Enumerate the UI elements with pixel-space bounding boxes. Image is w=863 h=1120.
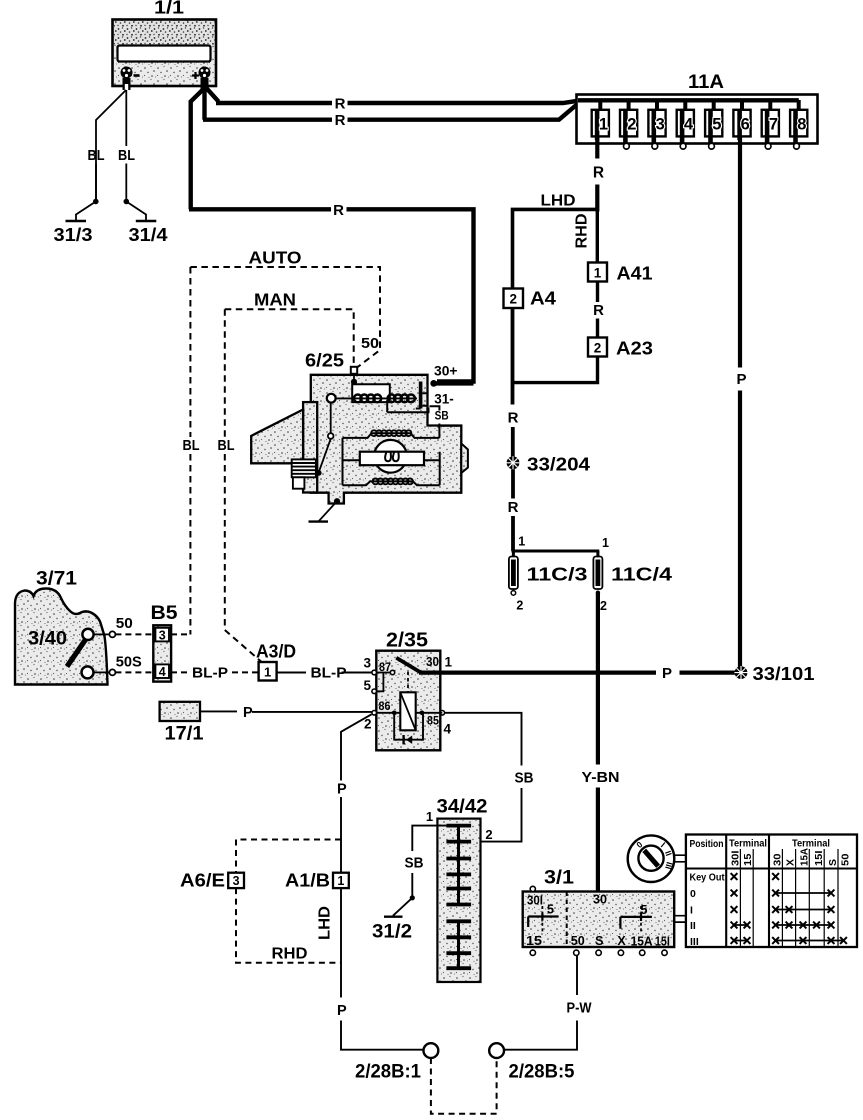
starter motor 6/25 <box>251 375 468 504</box>
starter right end cap <box>461 444 468 474</box>
svg-text:R: R <box>508 499 519 516</box>
svg-text:15: 15 <box>742 853 754 866</box>
relay coil <box>400 692 415 730</box>
relay contact arm <box>396 658 420 673</box>
svg-text:30I: 30I <box>527 894 543 908</box>
svg-text:8: 8 <box>797 116 806 134</box>
svg-text:R: R <box>335 96 346 113</box>
svg-text:BL-P: BL-P <box>311 666 347 682</box>
svg-text:33/204: 33/204 <box>527 454 591 475</box>
wire BL from battery minus to 31/4 <box>125 90 127 146</box>
table row I marks <box>776 909 831 911</box>
svg-text:Terminal: Terminal <box>729 838 767 850</box>
svg-text:1: 1 <box>599 116 608 134</box>
svg-text:S: S <box>595 934 603 948</box>
switch contact 50 <box>82 629 93 640</box>
svg-text:P-W: P-W <box>567 1001 592 1017</box>
svg-text:B5: B5 <box>151 602 178 624</box>
svg-text:33/101: 33/101 <box>753 663 815 684</box>
battery plus terminal post <box>199 67 211 91</box>
solenoid pull-in coil <box>354 395 381 403</box>
svg-text:LHD: LHD <box>317 906 334 940</box>
svg-text:RHD: RHD <box>272 946 308 963</box>
ground symbol starter <box>309 520 329 522</box>
svg-text:7: 7 <box>769 116 778 134</box>
svg-text:III: III <box>690 936 699 948</box>
wire MAN dashed path to starter terminal 50 <box>225 309 354 364</box>
wire AUTO dashed path to starter terminal 50 <box>190 267 380 368</box>
bracket 3/1 to table <box>674 916 686 922</box>
switch contact 50S <box>82 666 94 678</box>
node coil right <box>420 711 425 716</box>
svg-text:5: 5 <box>712 116 721 134</box>
plunger linkage <box>330 403 332 434</box>
svg-text:5: 5 <box>363 678 371 693</box>
battery minus terminal post <box>121 67 133 91</box>
svg-text:3: 3 <box>363 656 371 671</box>
wire BL dashed (MAN) down to A3/D <box>225 309 261 661</box>
svg-text:MAN: MAN <box>254 290 296 310</box>
solenoid box bottom <box>387 400 428 412</box>
svg-text:R: R <box>593 165 604 182</box>
motor field winding bottom row <box>343 481 440 485</box>
svg-text:11C/3: 11C/3 <box>527 564 588 585</box>
dashed box RHD (A6/E) <box>236 840 341 963</box>
svg-text:Terminal: Terminal <box>792 838 830 850</box>
svg-text:4: 4 <box>159 665 166 679</box>
commutator box <box>360 452 424 466</box>
svg-text:A41: A41 <box>617 263 653 284</box>
motor field winding top row <box>343 433 440 438</box>
svg-text:0: 0 <box>690 888 696 900</box>
wire pin 86 to coil <box>376 712 442 714</box>
svg-text:X: X <box>785 859 797 866</box>
svg-text:6/25: 6/25 <box>305 350 344 371</box>
svg-text:Key Out: Key Out <box>690 872 725 884</box>
wire BL dashed (AUTO) down to B5 <box>189 267 191 635</box>
pin 86 terminal <box>372 711 377 716</box>
svg-text:3/1: 3/1 <box>544 868 574 889</box>
diode symbol <box>402 735 404 744</box>
svg-text:2: 2 <box>600 599 607 613</box>
svg-text:50: 50 <box>571 934 585 948</box>
wire SB relay pin 85 to 34/42 pin 2 <box>445 713 522 842</box>
svg-text:A3/D: A3/D <box>256 641 296 662</box>
svg-text:SB: SB <box>515 771 534 787</box>
node junction on solenoid <box>351 379 357 385</box>
fuse 4 of 11A <box>677 100 694 149</box>
table row 0 marks <box>776 892 831 894</box>
wire to ground 31/4 <box>126 202 146 221</box>
wire R battery to fuse bus (top) <box>205 86 582 103</box>
node junction 31/4 <box>124 199 130 205</box>
svg-text:30I: 30I <box>729 850 741 866</box>
wire 30+ to battery wire <box>435 381 474 385</box>
svg-text:50: 50 <box>361 335 379 352</box>
connector A3/D pin 1 <box>259 662 277 681</box>
svg-text:BL-P: BL-P <box>192 666 228 682</box>
svg-text:SB: SB <box>435 411 449 423</box>
svg-text:1: 1 <box>594 266 602 281</box>
wire P below A1/B <box>341 888 424 1050</box>
svg-text:1: 1 <box>264 665 271 680</box>
wire dashed 50 to B5 pin 3 <box>115 633 153 635</box>
pin 3 terminal <box>372 670 377 675</box>
svg-text:R: R <box>593 302 604 319</box>
svg-text:1: 1 <box>602 536 609 550</box>
svg-text:A1/B: A1/B <box>285 870 330 891</box>
dashed divider <box>566 892 568 948</box>
battery minus sign <box>134 74 140 77</box>
fuse 8 of 11A <box>790 100 807 149</box>
bottom terminals <box>530 950 667 955</box>
plunger <box>327 394 336 403</box>
svg-text:1: 1 <box>426 809 433 824</box>
starter pinion gear <box>292 459 316 477</box>
svg-text:1: 1 <box>445 655 453 670</box>
wire R between A41 and A23 <box>596 282 599 338</box>
svg-text:3: 3 <box>159 628 166 642</box>
contact ticks <box>416 393 428 408</box>
table row II marks <box>734 924 831 926</box>
ground 31/3 <box>66 220 87 223</box>
wire P 17/1 to relay pin 86 <box>200 710 372 713</box>
connector A1/B pin 1 <box>333 873 349 888</box>
starter nose cone <box>251 410 303 464</box>
fuse element 11C/4 <box>593 551 602 595</box>
switch contact right <box>640 906 642 933</box>
wire pin 3 to contact 87 <box>376 672 390 674</box>
svg-text:4: 4 <box>444 722 452 737</box>
svg-text:R: R <box>508 410 519 427</box>
wire LHD branch <box>513 209 600 288</box>
svg-text:A4: A4 <box>530 288 557 309</box>
svg-text:A23: A23 <box>616 338 653 359</box>
terminal 30+ node <box>430 380 437 387</box>
terminal 50S stub <box>94 671 110 673</box>
svg-text:BL: BL <box>218 437 235 454</box>
svg-text:P: P <box>662 665 672 682</box>
battery plus sign <box>192 72 199 79</box>
fuse 5 of 11A <box>705 100 722 149</box>
fuse 3 of 11A <box>648 100 665 149</box>
armature <box>374 440 407 473</box>
svg-text:17/1: 17/1 <box>165 724 204 745</box>
svg-text:2: 2 <box>509 292 517 307</box>
solenoid hold-in coil <box>388 395 415 403</box>
node coil left <box>392 711 397 716</box>
svg-text:11C/4: 11C/4 <box>611 564 673 585</box>
fuse 1 of 11A <box>592 100 609 140</box>
starter ground node <box>334 498 340 504</box>
actuator dashed link <box>407 672 409 693</box>
wire 31- bracket to SB <box>430 406 462 426</box>
ignition switch 3/1 <box>523 886 675 955</box>
svg-text:SB: SB <box>405 856 424 872</box>
switch contact left <box>541 906 543 933</box>
connector B5 <box>153 625 171 681</box>
svg-text:30: 30 <box>426 655 439 669</box>
ignition key symbol <box>628 835 675 882</box>
svg-text:4: 4 <box>684 116 694 134</box>
svg-text:R: R <box>335 112 346 129</box>
connector A4 pin 2 <box>504 289 524 309</box>
table row Key Out marks <box>731 873 738 880</box>
connector A23 pin 2 <box>588 338 607 357</box>
svg-text:85: 85 <box>427 716 440 728</box>
svg-text:LHD: LHD <box>541 193 576 210</box>
resistor loop <box>394 713 423 740</box>
wire pin 5 link <box>376 673 383 692</box>
table row III marks <box>734 940 844 942</box>
wire BL from battery minus to 31/3 <box>96 90 126 202</box>
svg-text:31/4: 31/4 <box>129 225 168 245</box>
svg-text:BL: BL <box>118 147 135 164</box>
svg-text:2: 2 <box>594 341 602 356</box>
svg-text:15I: 15I <box>813 850 825 866</box>
ground 31/4 <box>136 220 157 223</box>
motor right branch <box>424 452 440 486</box>
dashed link 2/28B:1 to 2/28B:5 <box>431 1058 497 1114</box>
solenoid coil line with plunger shaft <box>335 397 417 399</box>
connector 34/42 <box>437 819 480 982</box>
svg-text:11A: 11A <box>688 72 724 93</box>
wire BL-P A3/D to relay pin 3 <box>277 672 372 674</box>
starter left flange <box>303 402 317 492</box>
svg-text:31/2: 31/2 <box>372 922 412 943</box>
svg-text:2: 2 <box>516 599 523 613</box>
svg-text:P: P <box>243 705 253 721</box>
solenoid contact bar <box>419 382 423 409</box>
relay box <box>376 651 440 751</box>
wire A4 branch down <box>511 308 515 457</box>
svg-text:2: 2 <box>627 116 636 134</box>
svg-text:RHD: RHD <box>574 214 591 249</box>
terminal top-left <box>530 886 535 891</box>
wire A23 to join LHD branch <box>513 357 598 383</box>
svg-text:15I: 15I <box>655 934 670 948</box>
svg-text:5: 5 <box>547 903 554 917</box>
fuse 6 of 11A <box>733 100 750 140</box>
svg-text:15A: 15A <box>631 934 653 948</box>
svg-text:15: 15 <box>526 934 542 948</box>
svg-text:86: 86 <box>379 701 391 713</box>
svg-text:30: 30 <box>771 853 783 866</box>
svg-text:BL: BL <box>88 147 105 164</box>
splice 33/204 <box>506 456 519 469</box>
fuse box 11A outline <box>577 95 818 144</box>
wire P-W to 3/1 terminal 50 <box>504 955 577 1050</box>
brush loops <box>385 452 399 462</box>
fuse 7 of 11A <box>762 100 779 149</box>
key position table <box>686 835 857 948</box>
svg-text:34/42: 34/42 <box>437 797 488 818</box>
svg-text:1: 1 <box>518 535 525 549</box>
wire dashed 50S to B5 pin 4 <box>115 671 153 673</box>
wire R battery to fuse bus (second) <box>203 86 581 120</box>
solenoid winding box <box>352 384 390 402</box>
svg-text:1: 1 <box>337 874 344 888</box>
splice 33/101 <box>734 666 747 679</box>
connector A6/E pin 3 <box>228 873 244 888</box>
svg-text:31/3: 31/3 <box>54 225 93 245</box>
ground symbol 31/2 <box>384 916 403 918</box>
wire RHD branch down to A41 <box>596 209 599 262</box>
terminal 50 stub <box>94 633 110 635</box>
svg-text:30+: 30+ <box>434 364 458 379</box>
wire SB vertical to field windings <box>438 426 440 438</box>
wire to starter ground <box>319 501 337 521</box>
battery 1/1 body <box>113 20 217 87</box>
svg-text:3/40: 3/40 <box>28 629 67 650</box>
wire terminal 50 into solenoid <box>353 374 355 382</box>
connector 17/1 <box>160 702 200 721</box>
svg-text:S: S <box>827 859 839 866</box>
ignition switch body 3/40 blob <box>15 589 108 685</box>
pin 85 terminal <box>440 711 445 716</box>
connector circle 2/28B:1 <box>424 1043 439 1058</box>
svg-text:3: 3 <box>656 116 665 134</box>
svg-text:50S: 50S <box>116 655 142 671</box>
wire 34/42 pin 1 to ground <box>412 826 446 898</box>
node junction 31/3 <box>93 199 99 205</box>
wire P from fuse 6 down to 33/101 <box>738 136 742 673</box>
wire to ground 31/3 <box>76 202 96 221</box>
svg-text:1/1: 1/1 <box>154 0 184 18</box>
pin 5 terminal <box>372 689 377 694</box>
svg-text:2/35: 2/35 <box>386 630 428 652</box>
wire junction to 11C/4 <box>512 550 600 553</box>
svg-text:3/71: 3/71 <box>36 569 77 590</box>
wire Y-BN 11C/4 down to 3/1 <box>596 593 600 891</box>
svg-text:X: X <box>617 934 626 948</box>
svg-text:2/28B:5: 2/28B:5 <box>509 1062 575 1083</box>
fuse box bus bar <box>578 98 799 102</box>
svg-text:I: I <box>690 905 693 917</box>
wire to ground 31/2 <box>393 898 412 917</box>
switch lever 3/40 <box>67 635 89 667</box>
ground node 31/2 <box>410 895 415 900</box>
svg-text:2/28B:1: 2/28B:1 <box>355 1062 421 1083</box>
relay 2/35 <box>363 630 452 751</box>
bracket key to table <box>674 855 686 862</box>
svg-text:15A: 15A <box>798 848 810 866</box>
svg-text:6: 6 <box>741 116 750 134</box>
fuse 2 of 11A <box>620 100 637 149</box>
svg-text:A6/E: A6/E <box>180 870 225 891</box>
svg-text:P: P <box>337 1003 347 1019</box>
motor left branch <box>343 438 361 485</box>
wire R battery to starter 30+ <box>189 88 474 382</box>
svg-text:P: P <box>337 782 347 798</box>
starter body <box>311 375 462 504</box>
svg-text:Y-BN: Y-BN <box>582 769 620 786</box>
fuse element 11C/3 <box>509 551 518 595</box>
svg-text:50: 50 <box>840 853 852 866</box>
svg-text:30: 30 <box>593 893 607 907</box>
connector A41 pin 1 <box>588 263 607 282</box>
svg-text:BL: BL <box>183 437 200 454</box>
wire R splice to junction <box>511 469 515 551</box>
wire dashed B5 pin 3 to BL (AUTO) line <box>171 633 190 635</box>
wire P relay to splice 33/101 <box>449 670 741 674</box>
connector circle 2/28B:5 <box>489 1043 504 1058</box>
svg-text:II: II <box>690 920 696 932</box>
svg-text:Position: Position <box>690 838 724 850</box>
wire R from fuse 1 <box>595 136 599 212</box>
starter terminal 50 <box>351 367 357 374</box>
wire dashed BL-P B5 pin 4 to A3/D <box>171 671 259 673</box>
svg-text:R: R <box>333 202 344 219</box>
svg-text:P: P <box>736 371 746 388</box>
svg-text:AUTO: AUTO <box>249 248 302 268</box>
svg-text:3: 3 <box>233 874 240 888</box>
svg-text:2: 2 <box>485 827 492 842</box>
svg-text:31-: 31- <box>434 392 454 407</box>
svg-text:50: 50 <box>116 616 133 632</box>
wire P relay pin 86 down-left <box>341 714 372 872</box>
